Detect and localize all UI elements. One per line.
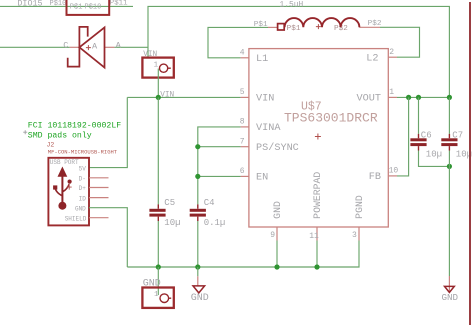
wire net GND rail (127, 241, 359, 268)
svg-text:4: 4 (240, 49, 245, 58)
svg-text:J2: J2 (47, 141, 55, 148)
wire net DIO15 top-left segment (0, 5, 133, 7)
wire net VOUT rail (397, 96, 449, 98)
svg-text:C: C (63, 41, 68, 51)
svg-text:C4: C4 (204, 198, 215, 208)
capacitor C6 10u (410, 130, 442, 159)
svg-text:PS/SYNC: PS/SYNC (256, 142, 299, 154)
svg-text:VIN: VIN (256, 93, 274, 104)
junction POWERPAD (314, 264, 319, 269)
svg-text:7: 7 (240, 137, 245, 146)
svg-text:5V: 5V (79, 165, 87, 172)
svg-text:DIO15: DIO15 (17, 0, 42, 8)
svg-text:VOUT: VOUT (357, 93, 381, 104)
svg-text:P$11: P$11 (110, 0, 128, 8)
connector DIO15 box (67, 0, 110, 15)
wire C5 to GND rail (157, 221, 159, 267)
svg-text:5: 5 (240, 88, 245, 97)
ground GND right (442, 276, 459, 303)
svg-text:FCI 10118192-0002LF: FCI 10118192-0002LF (28, 121, 121, 130)
svg-text:2: 2 (389, 48, 394, 57)
wire VIN to C5 (157, 97, 159, 204)
junction ICGND (274, 264, 279, 269)
svg-text:1: 1 (154, 291, 159, 299)
svg-text:9: 9 (270, 231, 275, 240)
svg-text:P$10: P$10 (50, 0, 67, 8)
pin VIN (5) (240, 88, 275, 104)
pin EN (6) (240, 167, 269, 184)
svg-text:6: 6 (240, 167, 245, 176)
junction VOUT-C7 (447, 95, 452, 100)
wire PS/SYNC (198, 146, 241, 148)
pin SHIELD stub (89, 217, 109, 219)
svg-text:L2: L2 (366, 53, 378, 64)
wire GND triangle stub (197, 267, 199, 276)
svg-text:1: 1 (154, 61, 159, 69)
wire net L2 (380, 27, 420, 57)
svg-text:TPS63001DRCR: TPS63001DRCR (284, 111, 378, 126)
wire EN (198, 175, 241, 177)
pin PS/SYNC (7) (240, 137, 299, 154)
pin L2 (2) (366, 48, 397, 65)
svg-text:11: 11 (309, 232, 319, 241)
junction C4-GND (195, 264, 200, 269)
junction VOUT-FB (406, 95, 411, 100)
svg-text:VIN: VIN (160, 92, 174, 100)
svg-text:D-: D- (79, 176, 86, 183)
junction C5-GND (156, 264, 161, 269)
pin L1 (4) (240, 49, 269, 65)
junction EN (195, 174, 200, 179)
wire net L1 (208, 27, 268, 57)
svg-text:10: 10 (389, 167, 399, 176)
wire C6 bottom link (419, 151, 450, 167)
svg-text:GND: GND (75, 205, 86, 212)
svg-text:0.1µ: 0.1µ (204, 218, 226, 228)
svg-text:P$1: P$1 (287, 25, 301, 33)
capacitor C5 10u (149, 198, 180, 228)
svg-text:A: A (92, 41, 98, 51)
pin POWERPAD (11) bottom (309, 172, 323, 241)
wire GND supply stub (157, 267, 159, 295)
svg-text:8: 8 (240, 118, 245, 127)
pin GND (9) bottom (270, 201, 283, 240)
junction VOUT-C6 (416, 95, 421, 100)
svg-text:SMD pads only: SMD pads only (28, 130, 92, 140)
wire IC POWERPAD drop (316, 241, 318, 268)
capacitor C7 10u (441, 130, 472, 159)
svg-text:USB PORT: USB PORT (50, 159, 79, 166)
wire net VIN rail (127, 96, 240, 98)
wire USB GND (89, 208, 127, 267)
pin ID stub (89, 197, 109, 199)
svg-text:P$1: P$1 (254, 21, 268, 29)
pin VOUT (1) (357, 88, 397, 104)
pin D- stub (89, 177, 109, 179)
wire diode cathode (0, 46, 70, 48)
usb connector J2 (47, 141, 118, 225)
svg-text:10µ: 10µ (164, 218, 180, 228)
wire IC GND pin drop (276, 241, 278, 268)
op-amp U$7 TPS63001DRCR (IC box) (249, 49, 388, 227)
svg-text:GND: GND (272, 201, 283, 219)
svg-text:10µ: 10µ (426, 149, 442, 159)
svg-text:VINA: VINA (256, 123, 281, 134)
svg-text:C5: C5 (164, 198, 175, 208)
svg-text:3: 3 (352, 231, 357, 240)
svg-text:ID: ID (79, 195, 87, 202)
wire C4 to GND rail (197, 221, 199, 267)
svg-text:P$10: P$10 (85, 3, 102, 11)
svg-text:L1: L1 (256, 54, 268, 65)
svg-text:POWERPAD: POWERPAD (312, 172, 323, 219)
pin D+ stub (89, 187, 109, 189)
wire VINA net vertical (198, 127, 241, 204)
junction VIN (156, 95, 161, 100)
wire VIN supply drop (157, 69, 159, 98)
diode D (schottky) (63, 27, 121, 68)
svg-text:GND: GND (191, 293, 209, 304)
svg-text:1.5uH: 1.5uH (280, 0, 304, 9)
frame border right (469, 2, 471, 325)
wire FB feedback (397, 97, 409, 175)
wire C6 top (418, 97, 420, 133)
node DIO15 labels (17, 0, 128, 8)
svg-text:P$1: P$1 (70, 3, 83, 11)
svg-text:EN: EN (256, 173, 268, 184)
supply symbol VIN (boxed) (142, 51, 173, 78)
pin PGND (3) bottom (352, 195, 365, 240)
svg-text:GND: GND (442, 292, 459, 303)
inductor L1 1.5uH (254, 0, 382, 33)
pin FB (10) (369, 167, 399, 184)
junction PS/SYNC (195, 144, 200, 149)
pin VINA (8) (240, 118, 282, 134)
svg-text:PGND: PGND (354, 195, 365, 219)
junction GND-C6C7 (447, 164, 452, 169)
svg-text:FB: FB (369, 172, 381, 183)
label FCI part (green) (23, 121, 121, 140)
usb icon (53, 168, 72, 210)
wire diode anode (114, 46, 148, 48)
svg-text:D+: D+ (79, 185, 87, 192)
svg-text:MF-CON-MICROUSB-RIGHT: MF-CON-MICROUSB-RIGHT (48, 149, 118, 156)
svg-text:SHIELD: SHIELD (65, 215, 87, 222)
wire C7 top (448, 97, 450, 133)
wire C7 to GND (448, 151, 450, 277)
capacitor C4 0.1u (190, 198, 226, 228)
svg-text:1: 1 (389, 88, 394, 97)
ground GND mid (191, 276, 209, 304)
svg-text:A: A (116, 41, 122, 51)
wire net VOUT top rail (148, 6, 449, 97)
supply symbol GND (boxed) (142, 278, 173, 308)
wire USB 5V riser (89, 97, 127, 167)
